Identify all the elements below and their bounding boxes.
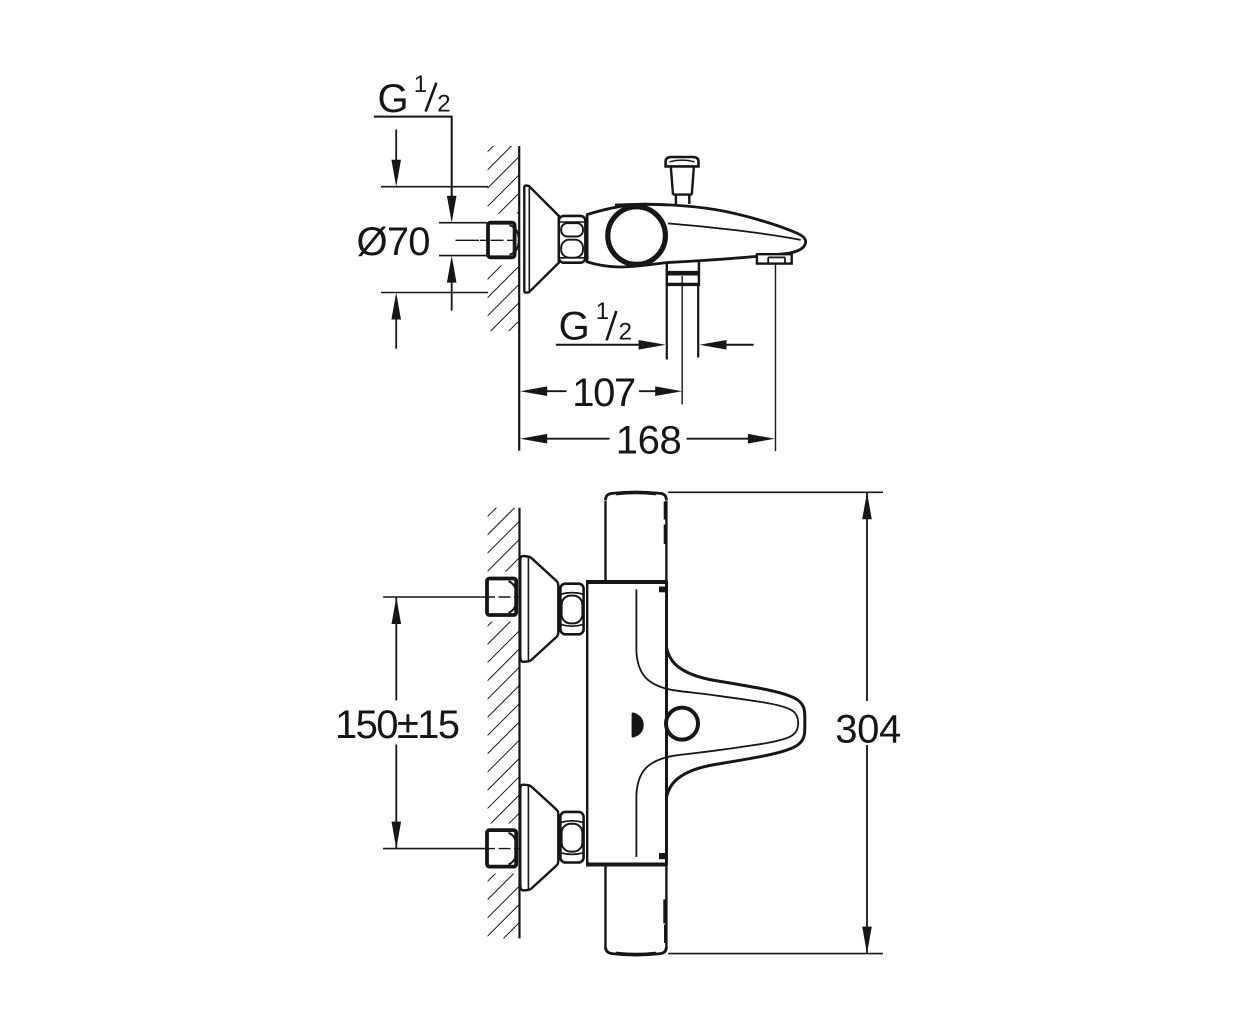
wall face line (side view) (518, 146, 520, 451)
shower hose connector (side view) (667, 262, 699, 286)
extension line top of escutcheon dia 70 (381, 186, 488, 188)
safety stop button (top view) (632, 712, 644, 737)
wall face line (top view) (518, 508, 520, 939)
corner ticks on body (659, 587, 666, 593)
svg-text:1: 1 (596, 298, 609, 325)
dia70 lower arrow (395, 319, 397, 349)
thick top edge of body (615, 203, 668, 206)
lower union centerline dashes (487, 848, 520, 850)
hose stub lines (666, 286, 668, 360)
dimension 150+-15 (395, 597, 397, 701)
hose centerline (681, 276, 683, 405)
svg-text:G: G (378, 77, 409, 121)
svg-text:2: 2 (619, 319, 632, 346)
spout outline (top view) (667, 582, 805, 865)
svg-text:Ø70: Ø70 (357, 220, 431, 264)
spout waterline (668, 223, 801, 240)
svg-text:2: 2 (437, 90, 450, 117)
upper escutcheon (top view) (520, 556, 558, 662)
upper union centerline dashes (487, 596, 520, 598)
svg-text:150±15: 150±15 (335, 703, 460, 747)
escutcheon cone (side view) (524, 186, 559, 293)
lower union nut (top view) (560, 812, 583, 863)
spout inner line (top view) (636, 589, 798, 857)
upper pipe end arc (509, 581, 517, 613)
thermostat knob circle (side view) (608, 207, 666, 265)
svg-text:304: 304 (835, 708, 901, 752)
diverter knob (side view) (666, 157, 699, 166)
thread extension lines G1/2 (439, 222, 487, 224)
upper wall union square (487, 579, 516, 616)
right arrow of hose thread dim (726, 344, 754, 346)
extension line lower union axis (383, 848, 487, 850)
mixer body block (top view) (587, 582, 666, 865)
extension line upper union axis (383, 596, 487, 598)
wall hatching (top view) (488, 508, 520, 939)
svg-text:G: G (559, 305, 590, 349)
leader line under G 1/2 (top) (374, 117, 452, 196)
leader under G1/2 middle with arrow (556, 344, 640, 346)
dimension 168 (520, 434, 547, 444)
upper union nut (top view) (560, 584, 583, 635)
tube bottom cap (606, 947, 667, 955)
aerator extension line (775, 264, 777, 451)
lower pipe end arc (509, 833, 517, 865)
dark edge segments on tube (664, 502, 668, 520)
svg-text:107: 107 (572, 371, 636, 415)
wall union square (side view) (488, 223, 515, 258)
lower wall union square (487, 830, 516, 867)
pipe end arc behind union (510, 225, 519, 254)
temperature button circle (top view) (666, 708, 698, 740)
wall hatching (side view) (488, 146, 520, 331)
cartridge tube (top view) (606, 494, 667, 956)
white halos around wall unions (top view) (481, 572, 520, 622)
extension line bottom of escutcheon dia 70 (381, 292, 488, 294)
svg-text:168: 168 (616, 418, 682, 462)
tube top cap (606, 492, 667, 500)
dia70 upper arrow (395, 130, 397, 163)
faucet body (side view) (587, 204, 806, 267)
aerator (side view) (757, 254, 792, 263)
white halo around wall union (side view) (481, 214, 519, 266)
dimension 107 (520, 386, 547, 396)
union nut (side view) (559, 216, 586, 263)
dimension 304 (668, 491, 883, 493)
thread lower arrow (451, 282, 453, 311)
lower escutcheon (top view) (520, 785, 558, 891)
svg-text:1: 1 (414, 71, 427, 98)
centerline of wall union (side view) (456, 239, 480, 241)
